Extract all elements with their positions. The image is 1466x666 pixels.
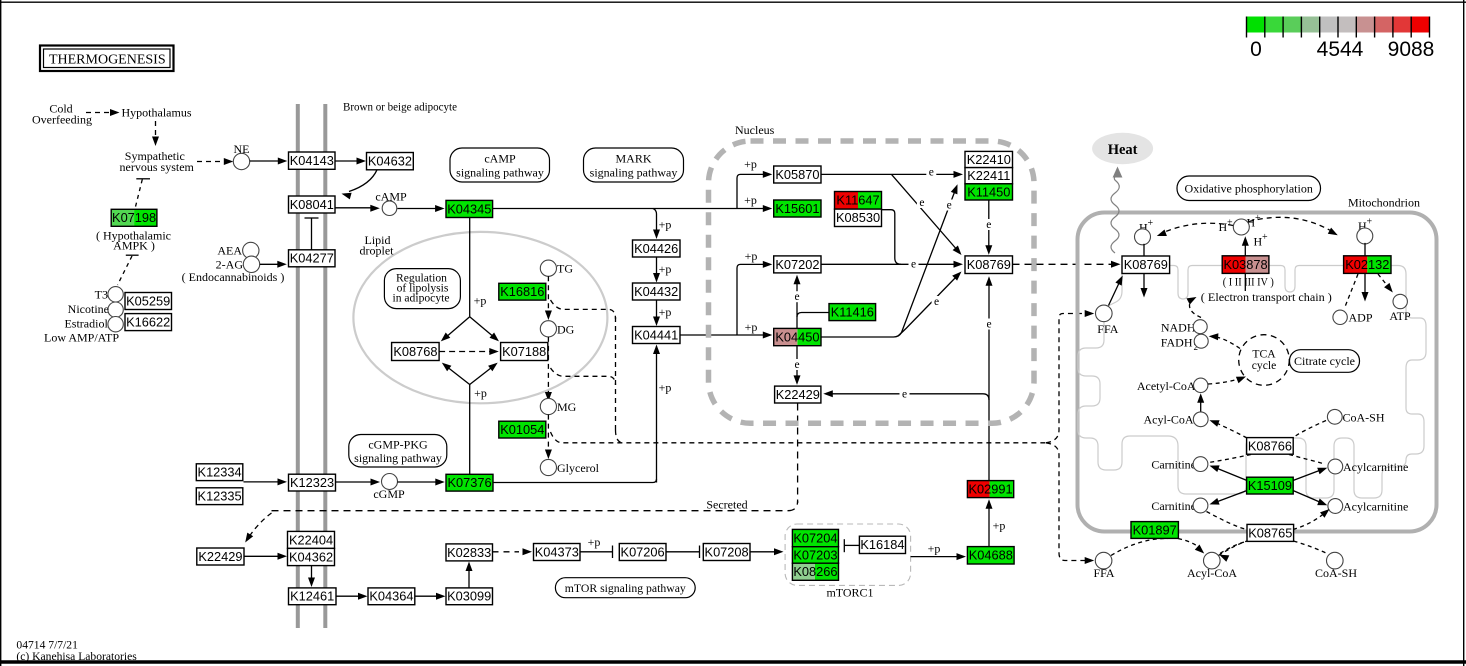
box K05870	[774, 166, 821, 183]
box K22410	[965, 151, 1013, 167]
box K08530	[835, 209, 882, 226]
wire Acyl-CoA to Acetyl-CoA (arrow)	[1200, 399, 1202, 413]
title box THERMOGENESIS	[40, 46, 174, 72]
box K04373	[534, 544, 581, 561]
label +p (K04450)	[745, 320, 758, 334]
svg-text:K05870: K05870	[775, 167, 819, 182]
label e (K02991-K08769)	[984, 319, 994, 331]
svg-text:Acylcarnitine: Acylcarnitine	[1343, 460, 1408, 474]
dashed arc Acyl-CoA bottom to CoA-SH bottom through K08765	[1220, 542, 1247, 554]
wire K04450 down to K22429 (e arrow)	[796, 346, 798, 380]
TCA cycle dashed circle	[1239, 335, 1290, 386]
svg-text:+p: +p	[474, 386, 487, 400]
Heat ellipse	[1092, 133, 1153, 164]
box K16184	[859, 536, 905, 553]
label +p (K07202)	[745, 249, 758, 263]
svg-text:K08768: K08768	[393, 344, 437, 359]
compound circle CoA-SH matrix	[1327, 409, 1342, 424]
compound circle TG	[540, 260, 556, 276]
lipid droplet ellipse	[353, 232, 607, 403]
svg-text:Hypothalamus: Hypothalamus	[122, 106, 192, 120]
svg-text:K07188: K07188	[502, 344, 546, 359]
dashed arc Acetyl-CoA to TCA (arrow)	[1208, 379, 1240, 385]
dashed vertical bracket line x615	[615, 317, 617, 430]
box K02991	[967, 481, 1013, 498]
svg-text:K03878: K03878	[1223, 257, 1267, 272]
compound circle NADH	[1193, 320, 1207, 334]
svg-text:K15109: K15109	[1248, 478, 1292, 493]
svg-text:e: e	[986, 319, 991, 331]
wire MG to Glycerol (dashed arrow)	[547, 415, 549, 453]
svg-text:TG: TG	[557, 261, 573, 275]
svg-text:K04432: K04432	[634, 284, 678, 299]
box K04632	[367, 153, 414, 170]
svg-text:(c) Kanehisa Laboratories: (c) Kanehisa Laboratories	[16, 650, 137, 663]
box K03099	[446, 588, 493, 605]
wire branch to K07202 (arrow +p)	[737, 264, 767, 335]
box K16622	[125, 314, 172, 331]
svg-text:e: e	[911, 259, 916, 271]
svg-text:MARK: MARK	[615, 152, 651, 166]
wire K11450 to K08769 (e arrow)	[988, 200, 990, 249]
svg-text:+p: +p	[993, 519, 1006, 533]
box K08766	[1247, 438, 1294, 455]
svg-text:Acyl-CoA: Acyl-CoA	[1144, 413, 1194, 427]
svg-text:K12323: K12323	[290, 475, 334, 490]
wire K03878 down through (vertical)	[1244, 273, 1246, 291]
compound circle H+ (K08769)	[1135, 229, 1151, 245]
box K12461	[289, 588, 337, 605]
wire K08041 to cAMP (arrow)	[335, 207, 374, 209]
svg-text:+p: +p	[745, 249, 758, 263]
box K22404	[288, 531, 335, 548]
svg-text:cGMP-PKG: cGMP-PKG	[368, 438, 428, 452]
box K04432	[633, 283, 681, 300]
compound circle Glycerol	[540, 459, 556, 475]
box K04450	[774, 328, 821, 345]
svg-text:+p: +p	[659, 305, 672, 319]
svg-text:Estradiol: Estradiol	[64, 317, 108, 331]
wire K02991 to K08769 (long vertical, e)	[988, 280, 990, 481]
svg-text:K22429: K22429	[198, 549, 242, 564]
svg-text:+p: +p	[928, 542, 941, 556]
page border frame	[0, 0, 2, 666]
svg-text:AMPK ): AMPK )	[113, 239, 155, 253]
svg-text:Acetyl-CoA: Acetyl-CoA	[1137, 379, 1196, 393]
box K04345	[446, 200, 493, 217]
box K22411	[965, 168, 1013, 184]
label e (K05870-K08769 diag)	[917, 197, 927, 209]
box K11647	[835, 192, 882, 210]
box K11416	[829, 304, 876, 321]
svg-text:ADP: ADP	[1349, 311, 1373, 325]
svg-text:K16816: K16816	[500, 284, 544, 299]
svg-text:9088: 9088	[1388, 38, 1435, 61]
svg-text:K07202: K07202	[775, 257, 819, 272]
label +p (K05870)	[744, 157, 757, 171]
box K04277	[289, 250, 336, 267]
svg-text:droplet: droplet	[360, 243, 395, 257]
wire K04345 down to lipolysis diamond	[469, 218, 471, 317]
svg-text:( I II III IV ): ( I II III IV )	[1223, 276, 1274, 288]
wire K08768 to K07188 (dashed arrow)	[439, 351, 492, 353]
wire cAMP to K04345 (arrow)	[397, 208, 439, 210]
svg-text:+p: +p	[745, 320, 758, 334]
compound circle T3	[108, 287, 123, 302]
svg-text:K22404: K22404	[289, 532, 333, 547]
nucleus dashed border	[709, 141, 1035, 423]
svg-text:Glycerol: Glycerol	[557, 461, 600, 475]
wire K04450 elbow diagonals	[821, 190, 956, 338]
svg-text:0: 0	[1250, 38, 1262, 61]
svg-text:+p: +p	[474, 294, 487, 308]
compound circle Carnitine upper	[1193, 457, 1208, 472]
svg-text:e: e	[794, 359, 799, 371]
compound circle cGMP	[382, 474, 398, 490]
svg-text:K22410: K22410	[967, 152, 1011, 167]
dashed line MG-Glycerol to FFA (long horizontal y443)	[551, 432, 1047, 443]
svg-text:e: e	[919, 197, 924, 209]
box K08041	[289, 196, 336, 213]
svg-text:K04450: K04450	[775, 329, 819, 344]
svg-text:+: +	[1262, 232, 1268, 243]
wire mTORC1 to K04688 (arrow +p)	[911, 556, 960, 558]
svg-text:Secreted: Secreted	[706, 497, 747, 511]
box K07376	[446, 474, 493, 491]
svg-text:K08769: K08769	[967, 257, 1011, 272]
inhibition wire AMPK to T3 (dashed T-bar)	[126, 254, 139, 256]
compound circle Acylcarnitine lower	[1328, 499, 1343, 514]
box K07202	[774, 256, 821, 273]
compound circle ADP	[1333, 310, 1347, 324]
label +p (K04426)	[659, 218, 672, 232]
compound circle AEA	[243, 242, 259, 258]
dashed arc H+ K03878 to H+ K02132 (arrow)	[1249, 217, 1333, 232]
wire H+ to K08769 vertical	[1143, 244, 1145, 256]
svg-text:Carnitine: Carnitine	[1151, 499, 1196, 513]
dashed arcs K08766 to Carnitine/Acylcarnitine	[1209, 455, 1251, 463]
wire DG to MG (dashed arrow)	[547, 337, 549, 395]
cell membrane bar right	[323, 104, 327, 628]
wavy wire K08769 to Heat (gray arrow)	[1111, 175, 1119, 253]
wire K07376 right to K04441 riser	[493, 479, 657, 483]
svg-text:K07203: K07203	[793, 547, 837, 562]
dashed arc TCA to NADH/FADH2 (arrow)	[1213, 337, 1240, 349]
box K12335	[196, 488, 243, 505]
compound circle H+ (K02132)	[1357, 228, 1373, 244]
wire K07376 up to K04441 (arrow +p)	[656, 350, 658, 483]
wire K04441 to K04450 (arrow +p)	[680, 334, 767, 336]
label +p (K04441 from below)	[659, 381, 672, 395]
inhibition wire mTORC1 to K16184 (T-bar)	[843, 539, 845, 552]
svg-text:K07206: K07206	[621, 544, 665, 559]
svg-text:K02991: K02991	[968, 482, 1012, 497]
svg-text:K08530: K08530	[836, 210, 880, 225]
svg-text:K04426: K04426	[634, 241, 678, 256]
wire K03099 to K02833 (arrow)	[468, 567, 470, 588]
wire K22429b to K04362 (arrow)	[244, 555, 281, 557]
wire branch to K11416	[797, 313, 829, 318]
wire K04632 to K08041 (curved arrow)	[349, 170, 377, 192]
compound circle FFA bottom	[1095, 552, 1112, 569]
wire K05870 branch diagonal to K08769 (e arrow)	[892, 174, 959, 251]
svg-text:THERMOGENESIS: THERMOGENESIS	[49, 53, 166, 68]
wire K05870 to K22411 (e arrow)	[821, 173, 957, 175]
svg-text:MG: MG	[557, 400, 577, 414]
svg-text:K22429: K22429	[776, 387, 820, 402]
box K16816	[499, 283, 546, 300]
dashed bracket DG-MG to right	[551, 368, 616, 385]
box K07198	[111, 209, 157, 226]
svg-text:Brown or beige adipocyte: Brown or beige adipocyte	[343, 100, 457, 114]
label e (K07202 line)	[909, 259, 919, 271]
wire K04688 to K02991 (arrow +p)	[988, 505, 990, 547]
pathway box Citrate cycle	[1290, 350, 1360, 373]
dashed arcs through K08765	[1207, 512, 1248, 530]
label e (K04450-K08769 diag)	[932, 296, 942, 308]
label e (K04450-K11450 diag)	[944, 200, 954, 212]
box K04688	[967, 547, 1014, 564]
svg-text:K04688: K04688	[969, 548, 1013, 563]
svg-text:e: e	[986, 219, 991, 231]
svg-text:AEA: AEA	[217, 243, 242, 257]
dashed arc H+ K03878 to H+ K08769 (arrow)	[1162, 223, 1233, 233]
svg-text:K12461: K12461	[290, 589, 334, 604]
compound circle 2-AG	[243, 256, 259, 272]
wire K08769 down arrow (into matrix)	[1143, 274, 1145, 292]
cell membrane bar left	[296, 104, 300, 628]
svg-text:K16622: K16622	[126, 315, 170, 330]
wire K03878 up to H+ (arrow)	[1244, 241, 1246, 256]
svg-text:Acylcarnitine: Acylcarnitine	[1343, 499, 1408, 513]
compound circle FADH2	[1194, 334, 1208, 348]
compound circle Acylcarnitine upper	[1328, 459, 1343, 474]
box K01897	[1131, 522, 1178, 539]
svg-text:K12335: K12335	[198, 489, 242, 504]
box K04362	[288, 548, 335, 565]
svg-text:K08766: K08766	[1248, 438, 1292, 453]
svg-text:e: e	[934, 296, 939, 308]
label +p (K02991)	[993, 519, 1006, 533]
box K12323	[289, 474, 336, 491]
svg-text:K04143: K04143	[290, 153, 334, 168]
svg-text:K02132: K02132	[1345, 257, 1389, 272]
wire diamond lower to K07188 (arrow)	[470, 366, 494, 385]
svg-text:+: +	[1148, 218, 1154, 229]
svg-text:K08765: K08765	[1248, 525, 1292, 540]
wires K15109 to four carnitine circles (arrows)	[1215, 468, 1247, 481]
svg-text:K04364: K04364	[369, 589, 413, 604]
wire Sympathetic to NE (dashed arrow)	[197, 161, 222, 163]
wire K12323 to cGMP (arrow)	[336, 481, 375, 483]
wire nucleus K08769 to mito K08769 (dashed arrow)	[1013, 263, 1114, 265]
svg-text:e: e	[902, 389, 907, 401]
wire TG to DG (dashed arrow)	[547, 276, 549, 314]
box K22429b	[197, 548, 244, 565]
box K08768	[392, 343, 440, 361]
compound circle Acyl-CoA bottom	[1204, 552, 1221, 569]
wire K02833 to K04373 (dashed arrow)	[493, 551, 520, 553]
compound circle ATP	[1393, 294, 1407, 308]
pathway box Regulation of lipolysis in adipocyte	[384, 269, 460, 309]
label +p (K15601)	[744, 193, 757, 207]
box K04426	[633, 240, 681, 257]
mTORC1 dashed group outline	[785, 524, 911, 585]
dashed wire K02132 to ADP	[1345, 274, 1359, 308]
wire diamond upper to K07188 (arrow)	[470, 317, 495, 338]
svg-text:CoA-SH: CoA-SH	[1343, 410, 1385, 424]
svg-text:T3: T3	[95, 287, 108, 301]
wire cGMP to K07376 (arrow)	[398, 481, 440, 483]
svg-text:DG: DG	[557, 323, 575, 337]
svg-text:K15601: K15601	[775, 201, 819, 216]
svg-text:+p: +p	[659, 262, 672, 276]
compound circle Acetyl-CoA	[1194, 378, 1208, 392]
svg-text:K04441: K04441	[634, 327, 678, 342]
svg-text:( Endocannabinoids ): ( Endocannabinoids )	[182, 270, 285, 284]
pathway box mTOR signaling pathway	[555, 578, 695, 598]
label +p (K04373-K07206)	[588, 535, 601, 549]
box K04143	[289, 152, 336, 169]
compound circle H+ (K03878)	[1233, 219, 1249, 235]
svg-text:K07204: K07204	[793, 530, 837, 545]
svg-text:K07208: K07208	[705, 544, 749, 559]
svg-text:+p: +p	[588, 535, 601, 549]
pathway box Oxidative phosphorylation	[1177, 176, 1321, 201]
compound circle DG	[540, 321, 556, 337]
svg-text:Citrate cycle: Citrate cycle	[1294, 354, 1355, 368]
compound circle CoA-SH bottom	[1327, 552, 1344, 569]
svg-text:mTORC1: mTORC1	[826, 586, 873, 600]
wire e branch to K22429 (arrow)	[827, 394, 989, 400]
label +p (lipolysis lower)	[474, 386, 487, 400]
dashed bracket TG-DG to right	[551, 300, 616, 319]
compound circle Acyl-CoA matrix	[1193, 412, 1208, 427]
svg-text:K08266: K08266	[793, 564, 837, 579]
svg-text:K07198: K07198	[112, 210, 156, 225]
box K15109	[1247, 477, 1294, 494]
box K04441	[633, 327, 681, 344]
svg-text:K12334: K12334	[198, 465, 242, 480]
dashed arcs through K08766 (arrow into Acyl-CoA)	[1294, 421, 1327, 438]
wire diamond lower to K08768 (arrow)	[446, 366, 470, 385]
label e (K05870 line)	[926, 167, 936, 179]
box K22429	[775, 386, 821, 403]
pathway box cAMP signaling pathway	[450, 148, 550, 182]
dashed wire K02132 to ATP (arrow)	[1378, 274, 1388, 287]
svg-text:K11416: K11416	[831, 305, 874, 320]
mitochondrion inner membrane (cristae)	[1078, 266, 1426, 499]
box K08769n	[965, 256, 1013, 274]
box K07188	[501, 343, 548, 361]
compound circle FFA top	[1096, 305, 1113, 322]
svg-text:FFA: FFA	[1097, 322, 1118, 336]
svg-text:Carnitine: Carnitine	[1151, 457, 1196, 471]
svg-text:K16184: K16184	[860, 537, 904, 552]
label e (to K22429)	[900, 389, 910, 401]
svg-text:K04345: K04345	[447, 201, 491, 216]
label e (K11450-K08769)	[984, 219, 994, 231]
svg-text:nervous system: nervous system	[120, 160, 195, 174]
label +p (lipolysis upper)	[474, 294, 487, 308]
dashed split into mitochondrion FFA (down branch)	[1046, 443, 1086, 561]
svg-text:K01897: K01897	[1133, 522, 1177, 537]
box K07204	[792, 529, 838, 546]
wire K04345 to K15601 main line (arrow)	[493, 208, 767, 210]
wire branch to K05870 (arrow +p)	[737, 174, 767, 208]
svg-text:+p: +p	[659, 218, 672, 232]
wire K04362 to K12461 (arrow)	[311, 566, 313, 581]
svg-text:signaling pathway: signaling pathway	[456, 166, 544, 180]
inhibition wire K07206 to K07208 (T-bar)	[666, 551, 700, 553]
box K08765	[1247, 524, 1294, 541]
box K02132	[1344, 256, 1391, 274]
inhibition wire K08041 to K04277 (T-bar)	[305, 217, 319, 219]
svg-text:K08041: K08041	[290, 197, 334, 212]
wire NE to K04143 (arrow)	[250, 160, 282, 162]
svg-text:signaling pathway: signaling pathway	[590, 166, 678, 180]
dashed arc FFA to Acyl-CoA through K01897 (arrow)	[1111, 538, 1168, 555]
svg-text:K04373: K04373	[535, 544, 579, 559]
wire K15601-complex elbow to K08769 line	[882, 210, 902, 265]
compound circle Nicotine	[108, 302, 123, 317]
svg-text:+: +	[1367, 217, 1373, 228]
svg-text:e: e	[947, 200, 952, 212]
svg-text:K03099: K03099	[447, 589, 491, 604]
box K07203	[792, 547, 838, 564]
label +p (K04688)	[928, 542, 941, 556]
svg-text:4544: 4544	[1317, 38, 1364, 61]
wire branch K04345 line down to K04426 (arrow +p)	[653, 209, 657, 234]
compound circle MG	[540, 398, 556, 414]
compound circle Carnitine lower	[1193, 498, 1208, 513]
svg-text:+p: +p	[744, 193, 757, 207]
label +p (K04441)	[659, 305, 672, 319]
wire diamond upper to K08768 (arrow)	[445, 317, 470, 338]
wire K04450 up to K07202 (e arrow)	[796, 279, 798, 329]
box K02833	[446, 544, 493, 561]
pathway box cGMP-PKG signaling pathway	[349, 435, 447, 468]
inhibition wire Sympathetic to K07198 (dashed T-bar)	[136, 178, 150, 180]
wire H+ to K02132 and down arrow	[1364, 243, 1366, 256]
svg-text:cAMP: cAMP	[484, 152, 516, 166]
dashed vertical below nucleus K22429	[797, 404, 799, 504]
box K15601	[774, 200, 821, 217]
svg-text:( Electron transport chain ): ( Electron transport chain )	[1201, 290, 1332, 304]
svg-text:K04362: K04362	[289, 549, 333, 564]
compound circle cAMP	[382, 201, 397, 216]
svg-text:e: e	[794, 291, 799, 303]
dashed arc NADH to Electron transport chain (arrow)	[1189, 301, 1201, 318]
wire Cold to Hypothalamus (dashed arrow)	[86, 112, 110, 114]
box K08266	[792, 563, 838, 580]
svg-text:ATP: ATP	[1389, 309, 1411, 323]
wire K04364 to K03099 (arrow)	[415, 595, 440, 597]
svg-text:+: +	[1227, 218, 1233, 229]
svg-text:+p: +p	[659, 381, 672, 395]
svg-text:K11450: K11450	[967, 184, 1010, 199]
box K12334	[196, 464, 243, 481]
compound circle NE	[233, 153, 249, 169]
dashed split into mitochondrion FFA (up branch)	[1046, 314, 1086, 443]
wire K07202 to K08769 (e arrow)	[821, 263, 957, 265]
wire 2-AG to K04277 (arrow)	[260, 263, 280, 265]
svg-text:in adipocyte: in adipocyte	[393, 291, 450, 304]
svg-text:cycle: cycle	[1252, 359, 1276, 372]
box K01054	[499, 421, 546, 438]
wire K12461 to K04364 (arrow)	[336, 595, 362, 597]
wire K12334/K12335 to K12323 (arrow)	[244, 481, 282, 483]
